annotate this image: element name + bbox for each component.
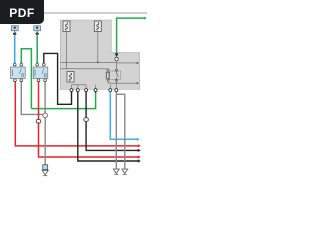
wire red R2 from S2 via splice to right edge — [39, 82, 139, 157]
wire fuse2 drop — [97, 32, 99, 63]
fuse F3 (S-box lower left inside block) — [67, 72, 74, 83]
wire internal bus B to coil — [60, 69, 108, 72]
ground G3 (hollow arrow) — [122, 169, 128, 173]
wire internal pin bus — [72, 84, 87, 86]
node connector entry arrow on green at block — [115, 53, 119, 57]
ruler line (page top rule) — [43, 12, 147, 14]
node inline connector capsule on red R2 — [36, 119, 41, 123]
wire cyan from block pin to right edge — [110, 92, 137, 140]
node pin circles S1 top — [14, 63, 16, 64]
wire internal to right edge upper (arrow) — [116, 62, 137, 64]
connector C1 (top left, to cowl) — [11, 26, 18, 31]
node arrow black B1 — [138, 149, 141, 152]
wire black B1 from block pin to right edge — [86, 92, 139, 151]
wire green loop S1 to down leg — [21, 49, 31, 109]
node pin circles S2 top — [36, 63, 38, 64]
ground G1 (hollow arrow under C3) — [42, 170, 48, 174]
PDF badge overlay — [0, 0, 44, 24]
node arrow head right (green continuation) — [144, 17, 147, 20]
wire gray from junction to ground connector — [44, 118, 46, 165]
node junction circle J1 — [43, 113, 48, 118]
node connector entry pin circle — [115, 57, 118, 60]
switch S1 (left door switch box) — [11, 67, 26, 79]
ground G2 (hollow arrow) — [113, 169, 119, 173]
node arrow red R2 — [138, 155, 141, 158]
wire red R1 from S1 to right edge — [15, 82, 139, 146]
wire gray from S1 to junction circle — [21, 82, 43, 115]
wire contact column — [115, 61, 117, 71]
fuse F2 (S-box top right of block) — [94, 21, 101, 32]
wire green bottom run to block pin — [31, 91, 95, 109]
wire gray ground B branch — [116, 94, 125, 169]
node relay pin dots — [107, 69, 109, 71]
wire fuse1 drop — [66, 32, 68, 69]
wire internal to right edge lower (arrow) — [108, 79, 137, 83]
node pin half-circle under C2 — [36, 31, 38, 32]
node block pin circles bottom row — [70, 89, 73, 92]
relay block J/B (gray junction block body) — [60, 20, 139, 89]
wire blue from C1 to switch S1 — [14, 35, 16, 62]
wire green feed top right (to arrow) — [117, 18, 145, 53]
wire black S2 up-over to block pin (U route) — [44, 53, 72, 104]
switch S2 (right door switch box) — [33, 67, 48, 79]
node arrow red R1 — [138, 144, 141, 147]
node junction dot fuse2/bus — [97, 61, 99, 63]
connector C2 (top right) — [34, 26, 41, 31]
wire gray from S2 down to junction circle — [44, 82, 46, 113]
node inline connector capsule on black B1 — [84, 118, 89, 122]
wire internal bus A (horizontal inside block) — [60, 61, 116, 63]
relay K1 (dashed box with coil and contact) — [106, 71, 121, 80]
wire gray ground A from block pin — [115, 92, 117, 169]
node pin half-circle under C1 — [14, 31, 16, 32]
node pin circles S2 bottom — [37, 79, 40, 82]
wire black B2 from block pin to right edge — [78, 92, 139, 161]
node arrow cyan — [137, 138, 140, 141]
connector C3 (bottom blue connector on gray wire) — [43, 165, 48, 170]
wire green from C2 to switch S2 — [36, 35, 38, 62]
fuse F1 (fusible link, S-box top left of block) — [63, 21, 70, 32]
node arrow black B2 — [138, 159, 141, 162]
node pin circles S1 bottom — [14, 79, 17, 82]
